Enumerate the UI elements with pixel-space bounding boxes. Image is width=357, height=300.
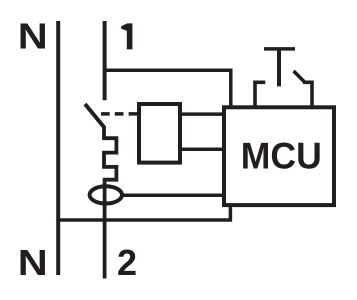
trip actuator box A1 (139, 104, 180, 163)
wire actuator to MCU lower (181, 148, 224, 152)
test button S1 left terminal (255, 82, 265, 107)
svg-text:N: N (18, 16, 48, 57)
svg-text:MCU: MCU (241, 136, 322, 177)
wire line pole 1 vertical (103, 21, 107, 100)
wire neutral pole vertical (56, 21, 60, 275)
test button S1 right terminal (303, 82, 312, 107)
test button S1 actuator bar (264, 47, 295, 51)
svg-text:2: 2 (117, 242, 137, 283)
wire neutral to MCU bottom (57, 206, 231, 220)
wire from pole 1 to MCU top (103, 70, 231, 107)
test button S1 contact blade (294, 71, 305, 82)
wire CT1 to MCU (122, 193, 224, 197)
terminal label 1 (121, 23, 132, 49)
thermal trip coil and pole 2 conductor (104, 126, 116, 279)
test button S1 stem (277, 49, 281, 87)
svg-text:N: N (18, 242, 48, 283)
dashed mechanical link (101, 112, 138, 116)
MCU U1 box (224, 107, 334, 205)
wire actuator to MCU upper (181, 112, 224, 116)
breaker contact SW1 blade (85, 104, 104, 128)
current transformer CT1 (90, 186, 122, 203)
